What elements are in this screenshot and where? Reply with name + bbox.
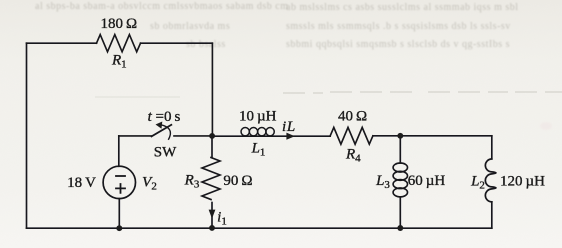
wire R3 bottom lead <box>211 203 213 229</box>
wire middle (switch node to R4) <box>212 135 330 137</box>
node dot R4/L3 junction <box>397 133 403 139</box>
faint pink scan smudge <box>540 122 552 130</box>
node dot L3 bottom <box>397 225 403 231</box>
inductor L3 <box>399 136 401 163</box>
node dot switch/R3 junction <box>209 133 215 139</box>
wire V2 top lead <box>118 136 120 166</box>
wire top right <box>141 42 213 44</box>
source V2 circle <box>103 166 135 198</box>
bleed-through text top <box>35 1 519 50</box>
source V2 polarity marks <box>115 176 126 194</box>
faint rules <box>95 92 562 97</box>
resistor R3 <box>202 136 220 200</box>
resistor R4 <box>330 127 373 144</box>
node dot V2 bottom <box>116 225 122 231</box>
wire switch right <box>174 135 212 137</box>
wire bottom <box>27 227 492 229</box>
inductor L1 <box>241 128 249 136</box>
switch arc arrowhead <box>156 122 163 129</box>
wire right drop to switch node <box>211 43 213 136</box>
wire V2 bottom lead <box>118 199 120 229</box>
wire left edge <box>26 43 28 228</box>
resistor R1 <box>97 35 141 52</box>
switch SW arc <box>161 125 170 139</box>
switch SW blade <box>152 125 172 137</box>
current arrow i1 <box>209 210 216 219</box>
node dot R3 bottom <box>209 225 215 231</box>
wire switch left <box>119 135 152 137</box>
wire R4 to node <box>373 135 492 137</box>
wire top left <box>27 42 97 44</box>
inductor L2 <box>491 136 493 159</box>
current arrow iL <box>286 133 294 140</box>
